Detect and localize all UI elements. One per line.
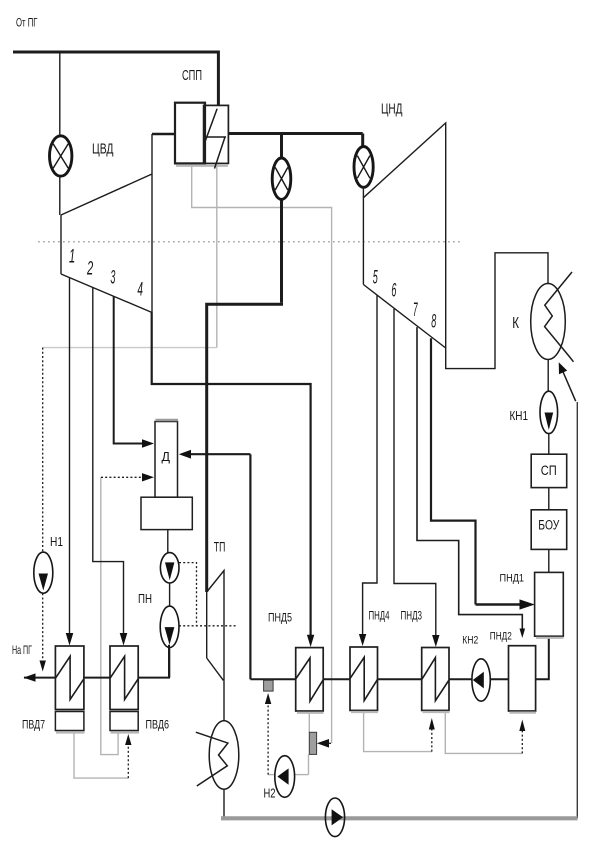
svg-text:ТП: ТП — [214, 540, 226, 555]
svg-text:Д: Д — [162, 450, 171, 464]
svg-text:6: 6 — [391, 281, 396, 302]
svg-text:7: 7 — [413, 300, 418, 321]
svg-text:От ПГ: От ПГ — [16, 18, 38, 30]
svg-text:К: К — [512, 315, 519, 332]
svg-text:Н2: Н2 — [264, 786, 276, 801]
svg-text:3: 3 — [110, 268, 115, 289]
svg-text:На ПГ: На ПГ — [12, 643, 32, 657]
svg-text:БОУ: БОУ — [538, 518, 559, 533]
svg-text:ПВД7: ПВД7 — [22, 720, 45, 732]
svg-text:СПП: СПП — [182, 67, 202, 84]
svg-text:4: 4 — [137, 280, 143, 301]
svg-text:ЦНД: ЦНД — [381, 102, 403, 118]
svg-text:ПНД4: ПНД4 — [369, 611, 390, 623]
svg-text:СП: СП — [541, 462, 557, 478]
svg-text:ПНД3: ПНД3 — [401, 611, 423, 623]
svg-text:2: 2 — [86, 259, 93, 280]
svg-text:ПВД6: ПВД6 — [146, 720, 170, 732]
svg-text:ПНД2: ПНД2 — [490, 631, 512, 643]
svg-text:1: 1 — [69, 247, 75, 268]
svg-text:ПНД5: ПНД5 — [268, 611, 292, 625]
svg-text:КН2: КН2 — [462, 635, 478, 647]
svg-text:8: 8 — [431, 312, 436, 333]
svg-text:ЦВД: ЦВД — [92, 142, 114, 158]
svg-text:ПНД1: ПНД1 — [500, 573, 525, 585]
svg-text:ПН: ПН — [138, 591, 152, 606]
svg-text:Н1: Н1 — [50, 534, 63, 549]
svg-text:5: 5 — [373, 267, 378, 288]
svg-text:КН1: КН1 — [510, 408, 529, 423]
